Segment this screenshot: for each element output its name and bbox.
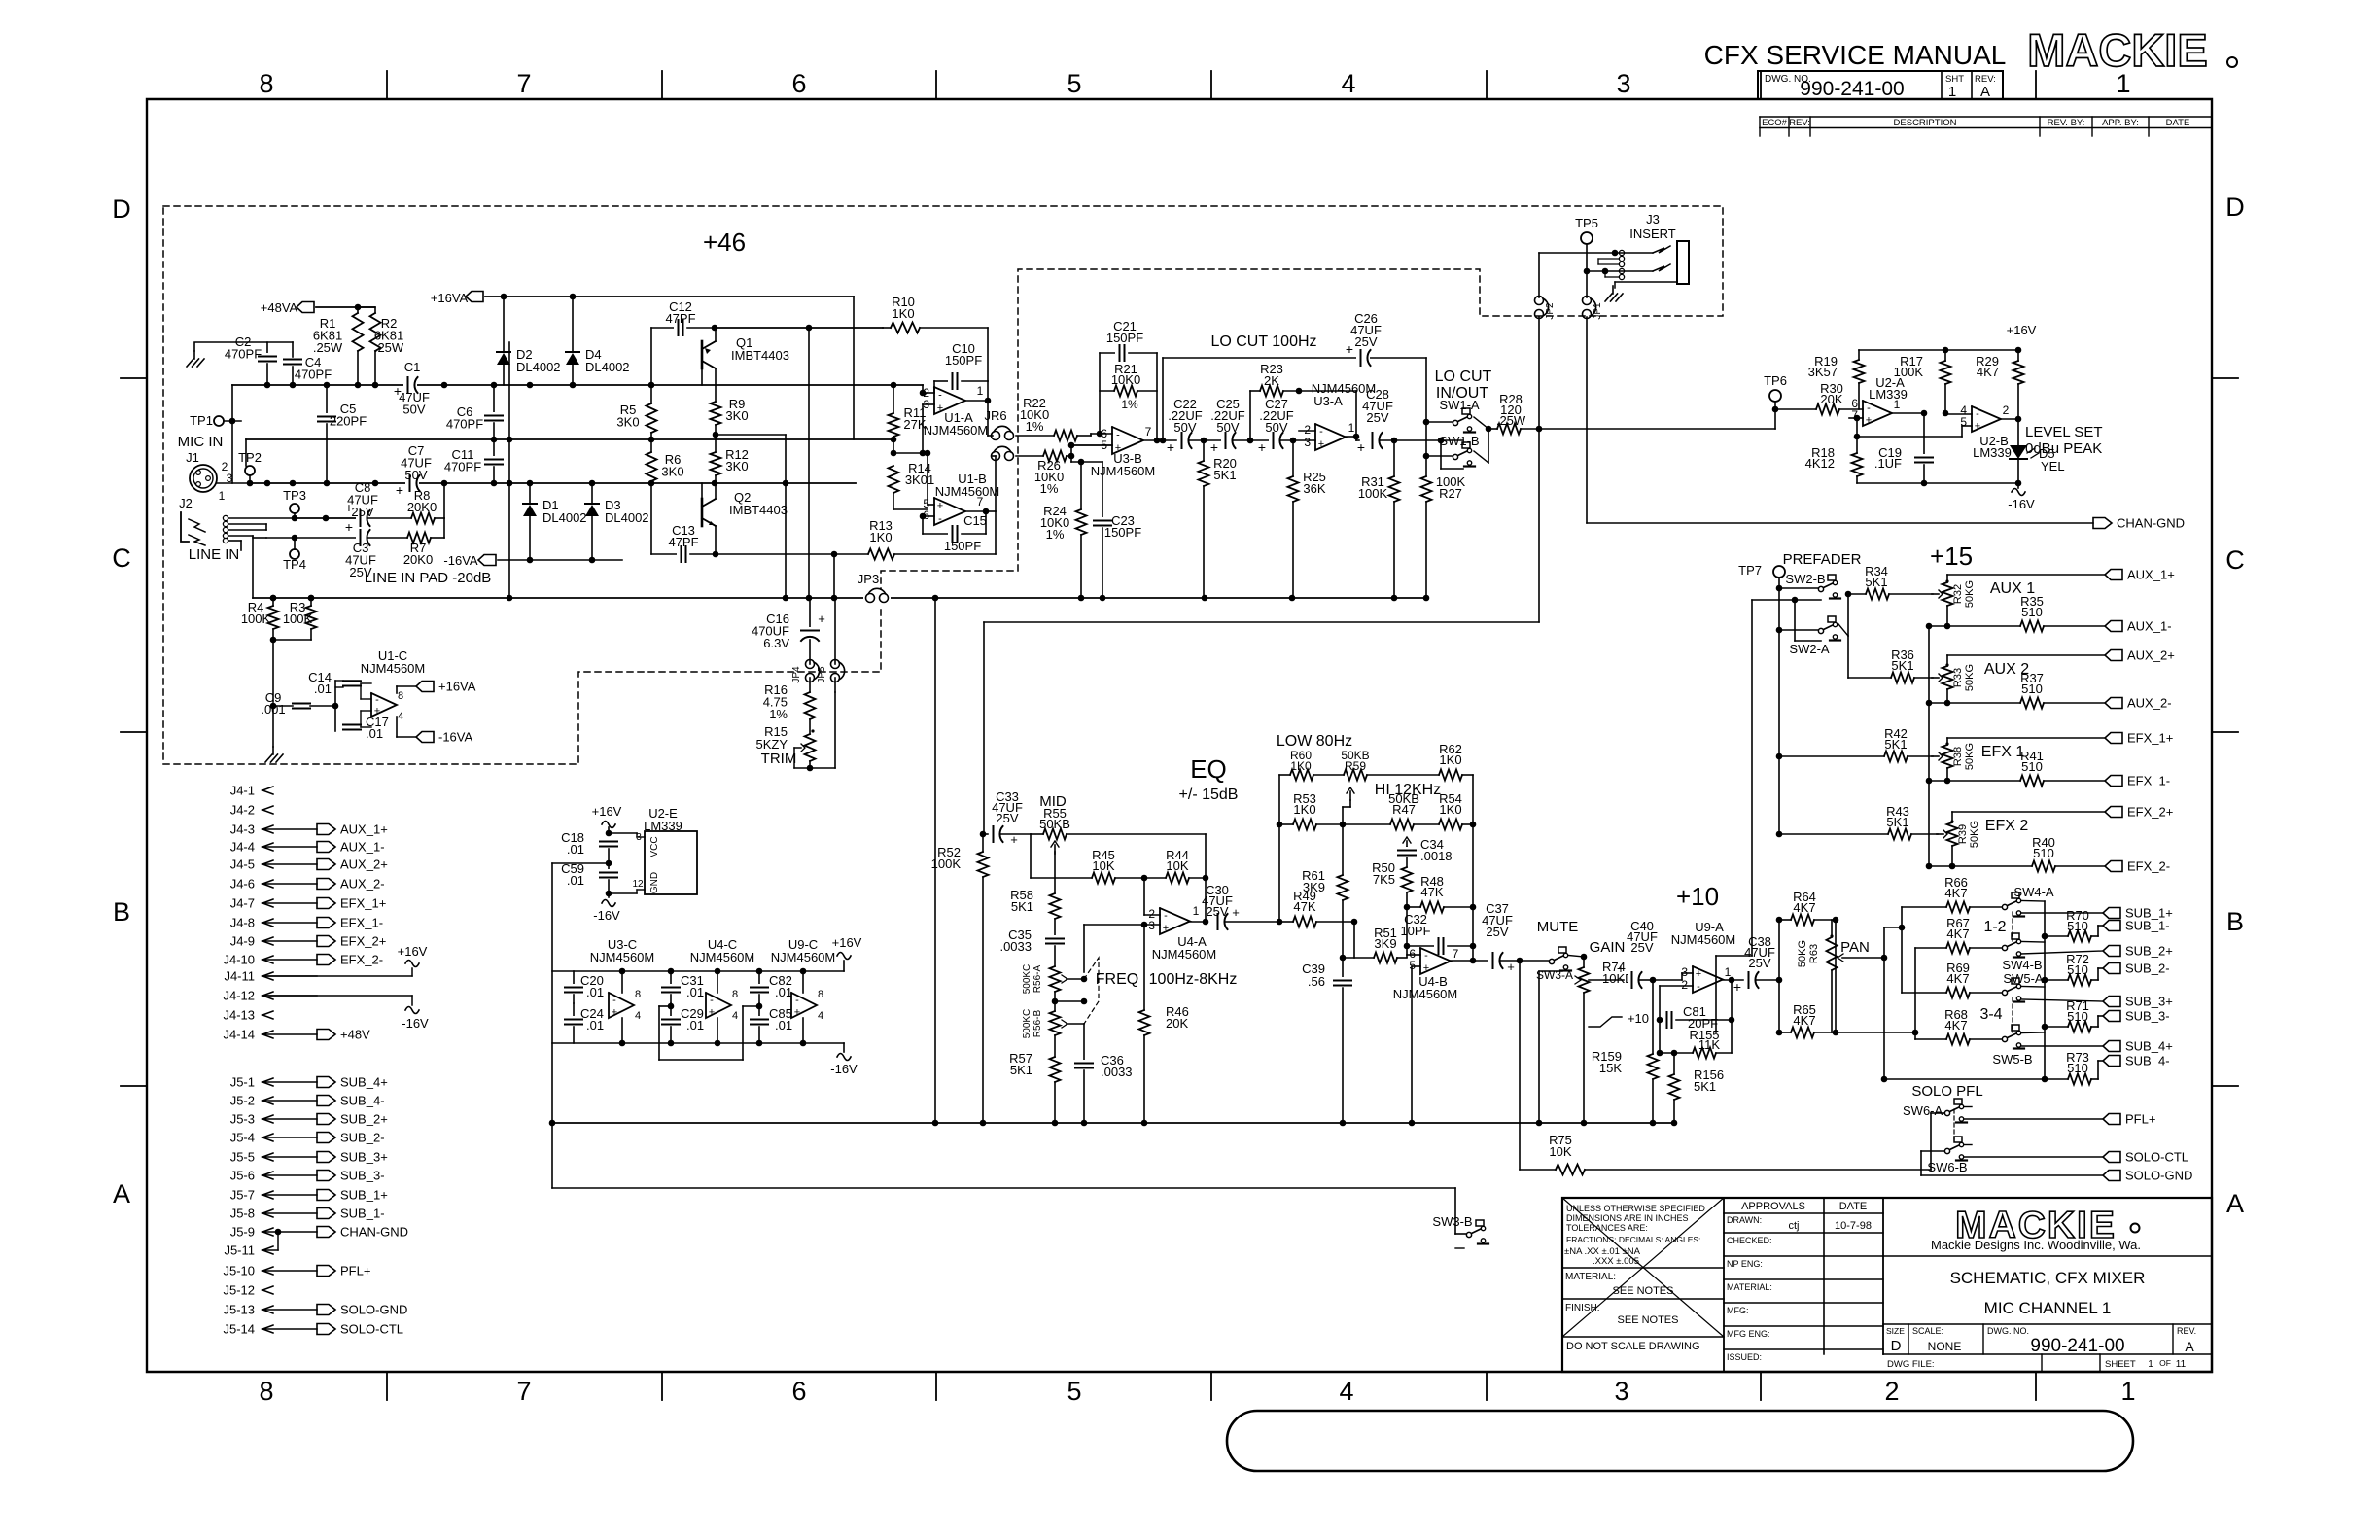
svg-text:2: 2 xyxy=(2003,403,2010,417)
svg-text:6: 6 xyxy=(791,69,806,98)
resistor R23 feedback xyxy=(1249,391,1251,440)
svg-text:DIMENSIONS ARE IN INCHES: DIMENSIONS ARE IN INCHES xyxy=(1566,1213,1689,1223)
insert ground xyxy=(1612,286,1614,294)
svg-text:EFX_2-: EFX_2- xyxy=(2127,859,2170,874)
svg-text:4K7: 4K7 xyxy=(1793,900,1815,915)
capacitor C28 series xyxy=(1368,432,1382,449)
wire to left rail x=568 xyxy=(552,862,609,864)
size scale dwg row xyxy=(1907,1324,1909,1354)
svg-text:SUB_2-: SUB_2- xyxy=(340,1131,385,1145)
resistor R57 xyxy=(1050,1057,1061,1082)
row to R73 from pan bus xyxy=(1884,1078,2045,1080)
pot R33 AUX2 xyxy=(1942,666,1953,689)
resistor R68 xyxy=(1915,1038,1946,1040)
svg-text:5: 5 xyxy=(1067,1377,1081,1406)
wire R9 mid to x808 xyxy=(716,434,786,436)
test point TP5 xyxy=(1581,232,1592,244)
svg-text:R32: R32 xyxy=(1952,584,1964,604)
svg-text:+/- 15dB: +/- 15dB xyxy=(1179,787,1239,803)
capacitor C39 xyxy=(1342,958,1344,977)
svg-text:50KB: 50KB xyxy=(1039,817,1070,831)
svg-text:J5-10: J5-10 xyxy=(223,1264,255,1278)
svg-text:-: - xyxy=(710,995,714,1006)
svg-text:EFX_1+: EFX_1+ xyxy=(340,896,386,911)
diode D4 xyxy=(572,297,574,352)
svg-text:+: + xyxy=(937,402,943,414)
svg-text:7: 7 xyxy=(516,1377,531,1406)
svg-text:8: 8 xyxy=(259,1377,273,1406)
test point TP3 xyxy=(290,504,299,513)
svg-text:.01: .01 xyxy=(775,985,792,999)
svg-text:1: 1 xyxy=(1193,904,1200,918)
svg-text:SIZE: SIZE xyxy=(1886,1326,1905,1336)
net tag SUB_1+ xyxy=(2103,908,2120,919)
svg-text:R47: R47 xyxy=(1392,802,1416,817)
svg-text:6.3V: 6.3V xyxy=(763,636,789,650)
svg-text:MIC CHANNEL 1: MIC CHANNEL 1 xyxy=(1984,1299,2112,1317)
svg-text:EQ: EQ xyxy=(1190,754,1227,784)
resistor R17 xyxy=(1944,350,1946,361)
svg-text:NJM4560M: NJM4560M xyxy=(935,484,999,499)
svg-text:500KC: 500KC xyxy=(1022,964,1032,995)
svg-text:C: C xyxy=(112,543,131,573)
svg-text:NJM4560M: NJM4560M xyxy=(690,950,754,964)
svg-text:D: D xyxy=(1891,1338,1902,1354)
approvals table xyxy=(1823,1198,1825,1354)
svg-text:J1: J1 xyxy=(186,450,199,465)
test point TP2 xyxy=(245,466,255,475)
svg-text:3K01: 3K01 xyxy=(905,472,934,487)
diode D1 xyxy=(529,483,531,504)
connector J1 XLR xyxy=(190,465,217,492)
svg-text:+10: +10 xyxy=(1676,882,1719,911)
svg-text:-16VA: -16VA xyxy=(443,553,477,568)
capacitor C20 xyxy=(573,971,575,984)
svg-text:IMBT4403: IMBT4403 xyxy=(729,503,787,517)
svg-text:20K: 20K xyxy=(1820,392,1842,406)
svg-text:25V: 25V xyxy=(1486,925,1508,939)
capacitor C10 series xyxy=(934,380,948,382)
capacitor C9 xyxy=(293,700,310,712)
svg-text:25V: 25V xyxy=(1366,410,1388,425)
svg-text:+16V: +16V xyxy=(398,944,428,959)
svg-text:1%: 1% xyxy=(1121,398,1138,411)
svg-text:J5-14: J5-14 xyxy=(223,1322,255,1337)
svg-text:.0033: .0033 xyxy=(999,939,1032,954)
mid link wire xyxy=(659,1005,671,1007)
svg-text:4K7: 4K7 xyxy=(1946,927,1969,941)
svg-text:D: D xyxy=(2225,192,2245,222)
svg-text:J4-10: J4-10 xyxy=(223,953,255,967)
svg-text:DL4002: DL4002 xyxy=(605,510,649,525)
resistor R19 xyxy=(1858,350,1860,360)
svg-text:470PF: 470PF xyxy=(444,460,481,474)
minus bus AUX/EFX xyxy=(1928,626,1930,866)
svg-text:-: - xyxy=(1116,429,1120,440)
dwg no box xyxy=(1758,71,2003,99)
AUX1 bottom row xyxy=(1926,623,1933,630)
svg-text:150PF: 150PF xyxy=(944,539,981,553)
svg-text:50KG: 50KG xyxy=(1964,580,1976,608)
wire R44 to output xyxy=(1205,834,1207,922)
pin3 row xyxy=(1084,924,1160,926)
resistor R3 xyxy=(306,606,317,629)
svg-text:+: + xyxy=(1733,979,1741,995)
svg-text:+: + xyxy=(937,500,943,511)
svg-text:J2: J2 xyxy=(179,496,192,510)
resistor R11 xyxy=(889,413,899,437)
mech link dashed FREQ xyxy=(1084,958,1099,1024)
jumper JR6 lower xyxy=(992,452,1000,461)
insert tip row xyxy=(1539,252,1653,254)
svg-text:DL4002: DL4002 xyxy=(542,510,587,525)
svg-text:470PF: 470PF xyxy=(295,367,332,382)
svg-text:PREFADER: PREFADER xyxy=(1783,551,1862,568)
wire c12 row xyxy=(715,327,883,329)
svg-text:SW6-A: SW6-A xyxy=(1903,1103,1943,1118)
wire mid wiper down to R58 xyxy=(1054,852,1056,893)
svg-text:EFX_1-: EFX_1- xyxy=(340,916,383,930)
EFX2 bottom row xyxy=(1926,863,1933,870)
svg-text:SUB_1+: SUB_1+ xyxy=(340,1188,388,1203)
net tag CHAN-GND xyxy=(2093,518,2112,529)
svg-text:SUB_3-: SUB_3- xyxy=(340,1169,385,1183)
resistor R9 xyxy=(711,402,721,425)
svg-text:EFX_2-: EFX_2- xyxy=(340,953,383,967)
svg-text:JP3: JP3 xyxy=(857,572,879,586)
svg-text:JP4: JP4 xyxy=(791,666,802,683)
jumper JP4 xyxy=(806,660,815,669)
svg-text:SOLO-GND: SOLO-GND xyxy=(340,1303,407,1317)
svg-text:EFX_2+: EFX_2+ xyxy=(2127,805,2173,820)
svg-text:CFX SERVICE MANUAL: CFX SERVICE MANUAL xyxy=(1704,40,2007,70)
trim pot R15 xyxy=(805,734,816,761)
svg-text:MUTE: MUTE xyxy=(1537,919,1579,935)
LED D5 xyxy=(2017,419,2019,445)
svg-text:510: 510 xyxy=(2067,1061,2088,1075)
svg-text:+16VA: +16VA xyxy=(438,680,476,694)
svg-text:NJM4560M: NJM4560M xyxy=(1671,932,1735,947)
resistor R159 xyxy=(1652,980,1654,1054)
resistor R18 xyxy=(1856,437,1858,453)
svg-text:REV.: REV. xyxy=(2177,1326,2196,1336)
svg-text:B: B xyxy=(2226,907,2244,936)
dwg file row xyxy=(1883,1353,2212,1355)
svg-text:J4-14: J4-14 xyxy=(223,1028,255,1042)
capacitor C13 series xyxy=(650,483,652,554)
svg-text:1K0: 1K0 xyxy=(1439,802,1461,817)
svg-text:NONE: NONE xyxy=(1928,1340,1962,1353)
C26 rail down to SW1 xyxy=(1425,358,1427,476)
svg-text:TP6: TP6 xyxy=(1764,373,1787,388)
svg-text:NP ENG:: NP ENG: xyxy=(1727,1259,1763,1269)
svg-text:7: 7 xyxy=(1452,947,1459,961)
opamp U4-A xyxy=(1160,908,1190,934)
svg-text:J5-4: J5-4 xyxy=(230,1131,255,1145)
svg-text:IMBT4403: IMBT4403 xyxy=(731,348,789,363)
svg-text:SOLO PFL: SOLO PFL xyxy=(1911,1083,1982,1100)
svg-text:J5-13: J5-13 xyxy=(223,1303,255,1317)
svg-text:SW1-A: SW1-A xyxy=(1439,398,1480,412)
ground under C9 xyxy=(272,747,274,754)
svg-text:+: + xyxy=(818,612,825,626)
svg-text:TP5: TP5 xyxy=(1575,216,1598,230)
svg-text:TP2: TP2 xyxy=(238,450,262,465)
svg-text:150PF: 150PF xyxy=(1106,331,1143,345)
svg-text:100Hz-8KHz: 100Hz-8KHz xyxy=(1149,971,1238,988)
svg-text:.01: .01 xyxy=(567,842,584,857)
svg-text:A: A xyxy=(1980,84,1990,100)
svg-text:+: + xyxy=(612,1006,617,1018)
svg-text:R27: R27 xyxy=(1439,486,1462,501)
jumper JP5 xyxy=(834,598,836,664)
svg-text:+48V: +48V xyxy=(340,1028,370,1042)
svg-text:J5-2: J5-2 xyxy=(230,1094,255,1108)
capacitor C31 xyxy=(670,971,672,984)
jumper JP3 xyxy=(863,589,891,607)
svg-text:CHAN-GND: CHAN-GND xyxy=(2117,516,2185,531)
svg-text:C1: C1 xyxy=(404,360,421,374)
net tag PFL+ xyxy=(2103,1114,2120,1125)
svg-text:PFL+: PFL+ xyxy=(340,1264,370,1278)
svg-text:INSERT: INSERT xyxy=(1629,227,1675,241)
svg-text:A: A xyxy=(113,1179,130,1208)
resistor R35 xyxy=(2020,621,2044,632)
svg-text:NJM4560M: NJM4560M xyxy=(361,661,425,676)
wire sw2 lower feed xyxy=(1776,627,1783,634)
mech link SW6 xyxy=(1953,1109,1955,1139)
svg-text:-: - xyxy=(938,513,942,525)
capacitor C3 series xyxy=(356,529,369,546)
svg-text:J5-8: J5-8 xyxy=(230,1207,255,1221)
svg-text:470PF: 470PF xyxy=(225,347,262,362)
AUX2 bottom row xyxy=(1926,700,1933,707)
svg-text:50KG: 50KG xyxy=(1797,940,1808,967)
zone ticks left xyxy=(121,377,147,379)
svg-text:J4-4: J4-4 xyxy=(230,840,255,855)
svg-text:20K0: 20K0 xyxy=(407,500,437,514)
svg-text:990-241-00: 990-241-00 xyxy=(1800,78,1904,100)
svg-text:4: 4 xyxy=(1339,1377,1353,1406)
svg-text:+16VA: +16VA xyxy=(431,291,469,305)
svg-text:PAN: PAN xyxy=(1840,939,1870,956)
svg-text:SEE NOTES: SEE NOTES xyxy=(1613,1285,1674,1297)
row line-in lower y=553 xyxy=(266,537,358,539)
transistor Q1 xyxy=(701,341,704,368)
capacitor C4 xyxy=(284,356,301,367)
feedback C81 xyxy=(1659,986,1661,1053)
opamp U1-B xyxy=(934,498,965,525)
svg-text:A: A xyxy=(2226,1189,2244,1218)
net tag EFX_2+ xyxy=(2105,807,2122,818)
resistor R155 xyxy=(1660,1052,1693,1054)
svg-text:+: + xyxy=(1423,962,1429,974)
svg-text:10K: 10K xyxy=(1166,858,1188,873)
capacitor C29 xyxy=(670,1003,672,1017)
svg-text:APPROVALS: APPROVALS xyxy=(1741,1201,1805,1212)
svg-text:4: 4 xyxy=(818,1010,823,1022)
svg-text:3: 3 xyxy=(1614,1377,1628,1406)
svg-text:5KZY: 5KZY xyxy=(755,737,787,752)
capacitor C40 series xyxy=(1627,971,1641,989)
svg-text:1: 1 xyxy=(1948,84,1956,100)
svg-text:J4-7: J4-7 xyxy=(230,896,255,911)
svg-text:+: + xyxy=(1696,968,1701,980)
svg-text:C: C xyxy=(2225,545,2245,575)
capacitor C11 xyxy=(493,439,495,456)
svg-text:25V: 25V xyxy=(996,811,1018,825)
resistor R66 xyxy=(1902,906,1946,908)
capacitor C5 xyxy=(326,385,328,413)
-16V below comparator xyxy=(2017,483,2019,488)
svg-text:SUB_4-: SUB_4- xyxy=(2125,1054,2170,1068)
net tag AUX_2+ xyxy=(2105,650,2122,661)
svg-text:J3: J3 xyxy=(1646,212,1660,227)
resistor R36 xyxy=(1891,673,1914,683)
wire gnd to C2 xyxy=(194,342,267,354)
pot R55 MID xyxy=(1031,833,1043,835)
net tag SUB_4+ xyxy=(2103,1041,2120,1052)
svg-text:SUB_3-: SUB_3- xyxy=(2125,1009,2170,1024)
wire x524 up xyxy=(508,342,510,598)
net tag SUB_1- xyxy=(2103,921,2120,931)
svg-text:D: D xyxy=(112,194,131,224)
resistor R44 xyxy=(1166,873,1189,884)
svg-text:+: + xyxy=(396,482,403,498)
wire row A to Q1 base xyxy=(701,355,703,385)
svg-text:100K: 100K xyxy=(1358,486,1388,501)
svg-text:4K7: 4K7 xyxy=(1944,886,1967,900)
svg-text:J5-5: J5-5 xyxy=(230,1150,255,1165)
opamp U9-C triangle xyxy=(791,993,817,1018)
svg-text:+: + xyxy=(1167,439,1174,455)
svg-text:1-2: 1-2 xyxy=(1983,919,2006,935)
capacitor C12 series xyxy=(651,327,674,329)
comparator rail +16V xyxy=(1859,349,2018,351)
svg-text:150PF: 150PF xyxy=(945,353,982,367)
capacitor C1 series xyxy=(403,376,417,394)
svg-text:2: 2 xyxy=(1304,423,1311,437)
svg-text:AUX_2+: AUX_2+ xyxy=(2127,648,2175,663)
svg-text:.01: .01 xyxy=(586,985,604,999)
svg-text:1: 1 xyxy=(977,384,984,398)
resistor R29 xyxy=(2017,350,2019,361)
svg-text:TOLERANCES ARE:: TOLERANCES ARE: xyxy=(1566,1223,1648,1233)
resistor R49 xyxy=(1279,921,1293,923)
test point TP6 xyxy=(1769,390,1781,402)
svg-text:AUX_1+: AUX_1+ xyxy=(340,822,388,837)
svg-text:25V: 25V xyxy=(1354,334,1377,349)
svg-text:6: 6 xyxy=(791,1377,806,1406)
wire x=1012 from y640 xyxy=(983,622,985,834)
svg-text:1%: 1% xyxy=(769,707,787,721)
svg-text:1%: 1% xyxy=(1040,481,1059,496)
svg-text:ECO#: ECO# xyxy=(1762,118,1788,128)
resistor R8 xyxy=(411,513,435,524)
svg-text:FREQ: FREQ xyxy=(1096,971,1138,988)
svg-text:12: 12 xyxy=(632,879,644,890)
left return bus x=1802 xyxy=(1751,600,1753,956)
svg-text:+: + xyxy=(1163,923,1169,934)
capacitor C30 series xyxy=(1213,913,1227,930)
capacitor C37 series xyxy=(1473,960,1487,962)
svg-text:10PF: 10PF xyxy=(1400,924,1430,938)
svg-text:7: 7 xyxy=(516,69,531,98)
opamp U1-C triangle xyxy=(371,693,397,717)
svg-text:5K1: 5K1 xyxy=(1213,468,1236,482)
svg-text:DL4002: DL4002 xyxy=(585,360,630,374)
AUX_1+ rail xyxy=(1947,574,2105,576)
wire J4-11 to +16V xyxy=(264,975,412,977)
opamp U1-A xyxy=(934,387,965,414)
wire C38 node vertical xyxy=(1778,920,1780,1032)
svg-text:J4-12: J4-12 xyxy=(223,989,255,1003)
svg-text:+46: +46 xyxy=(703,227,746,257)
resistor R156 xyxy=(1673,1053,1675,1074)
resistor R31 xyxy=(1393,440,1395,476)
svg-text:J4-3: J4-3 xyxy=(230,822,255,837)
svg-text:.01: .01 xyxy=(775,1018,792,1032)
svg-text:3K0: 3K0 xyxy=(661,465,683,479)
pot R38 EFX1 xyxy=(1942,745,1953,768)
svg-text:1: 1 xyxy=(219,489,226,503)
test point TP7 xyxy=(1773,566,1785,577)
capacitor C17 xyxy=(343,721,361,733)
resistor R73 xyxy=(2045,1078,2068,1080)
ground bus y=615 xyxy=(253,597,1426,599)
svg-text:8: 8 xyxy=(732,989,738,1000)
svg-text:4K7: 4K7 xyxy=(1944,1018,1967,1032)
opamp U3-B xyxy=(1112,427,1143,454)
svg-text:4: 4 xyxy=(732,1010,738,1022)
diode D3 xyxy=(591,483,593,504)
svg-text:J4-1: J4-1 xyxy=(230,784,255,798)
wire TP7 to R42 xyxy=(1776,753,1783,760)
svg-text:-: - xyxy=(1319,426,1323,437)
svg-text:OF: OF xyxy=(2159,1358,2171,1368)
svg-text:LM339: LM339 xyxy=(1869,387,1907,402)
svg-text:+: + xyxy=(345,519,353,535)
insert terminal circles xyxy=(1619,250,1624,255)
resistor R52 xyxy=(980,831,987,838)
wire top bus from +16VA to x878 xyxy=(853,297,855,439)
tolerance block xyxy=(1562,1267,1724,1269)
svg-text:AUX_2-: AUX_2- xyxy=(340,877,385,892)
sub feed bus x=1970 xyxy=(1836,1032,1915,1033)
svg-text:TP4: TP4 xyxy=(283,557,306,572)
resistor R65 xyxy=(1779,1032,1791,1033)
svg-text:47K: 47K xyxy=(1293,899,1315,914)
svg-text:NJM4560M: NJM4560M xyxy=(590,950,654,964)
diode D2 xyxy=(503,297,505,352)
opamp rail top y=999 xyxy=(552,970,844,972)
resistor R42 xyxy=(1884,752,1907,762)
resistor R45 xyxy=(1092,873,1115,884)
svg-text:2K: 2K xyxy=(1264,373,1279,388)
svg-text:1%: 1% xyxy=(1046,527,1065,542)
resistor R27 xyxy=(1421,476,1432,502)
svg-text:TP3: TP3 xyxy=(283,488,306,503)
svg-text:4: 4 xyxy=(1341,69,1355,98)
svg-text:SW5-B: SW5-B xyxy=(1992,1052,2032,1067)
svg-text:+: + xyxy=(1357,439,1365,455)
svg-text:DESCRIPTION: DESCRIPTION xyxy=(1894,118,1957,128)
svg-text:.0018: .0018 xyxy=(1420,849,1452,863)
svg-text:.1UF: .1UF xyxy=(1874,456,1902,471)
svg-text:FRACTIONS: DECIMALS: ANG: FRACTIONS: DECIMALS: ANGLES: xyxy=(1566,1235,1700,1244)
net tag EFX_1+ xyxy=(2105,733,2122,744)
wire TP6 row xyxy=(1775,408,1816,410)
